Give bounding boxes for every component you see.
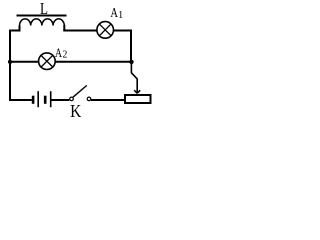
wire left vertical xyxy=(9,30,11,102)
label A2 xyxy=(55,45,68,61)
wire coil step down xyxy=(63,25,65,31)
battery cell 2 positive plate xyxy=(50,91,52,107)
switch K right contact xyxy=(87,97,91,101)
wire top-left stub xyxy=(9,26,20,31)
label A1 xyxy=(110,5,123,21)
switch K left contact xyxy=(70,97,74,101)
slider arrowhead xyxy=(134,90,140,93)
wire battery to switch xyxy=(51,99,69,101)
wire bottom left segment xyxy=(9,99,32,101)
svg-text:K: K xyxy=(70,101,81,121)
wire right vertical xyxy=(130,30,132,63)
lamp A2 xyxy=(39,53,56,70)
rheostat R xyxy=(125,95,151,103)
node junction dot right xyxy=(129,60,133,64)
svg-text:A: A xyxy=(110,5,118,20)
wire rheostat slider lead xyxy=(131,63,137,93)
switch K lever xyxy=(73,85,87,97)
battery cell 2 negative plate xyxy=(44,96,47,104)
wire switch to rheostat xyxy=(91,99,125,101)
wire from lamp A1 to right corner xyxy=(114,30,133,32)
svg-text:1: 1 xyxy=(118,10,123,21)
inductor core bar xyxy=(17,15,67,17)
wire middle left segment xyxy=(9,61,39,63)
lamp A1 xyxy=(97,22,114,39)
wire top run to lamp A1 xyxy=(63,30,97,32)
wire middle right segment xyxy=(55,61,131,63)
svg-text:2: 2 xyxy=(62,50,67,61)
svg-text:L: L xyxy=(40,0,48,18)
battery cell 1 negative plate xyxy=(32,96,35,104)
inductor L coil xyxy=(20,19,65,26)
battery cell 1 positive plate xyxy=(37,91,39,107)
node junction dot left xyxy=(8,60,12,64)
